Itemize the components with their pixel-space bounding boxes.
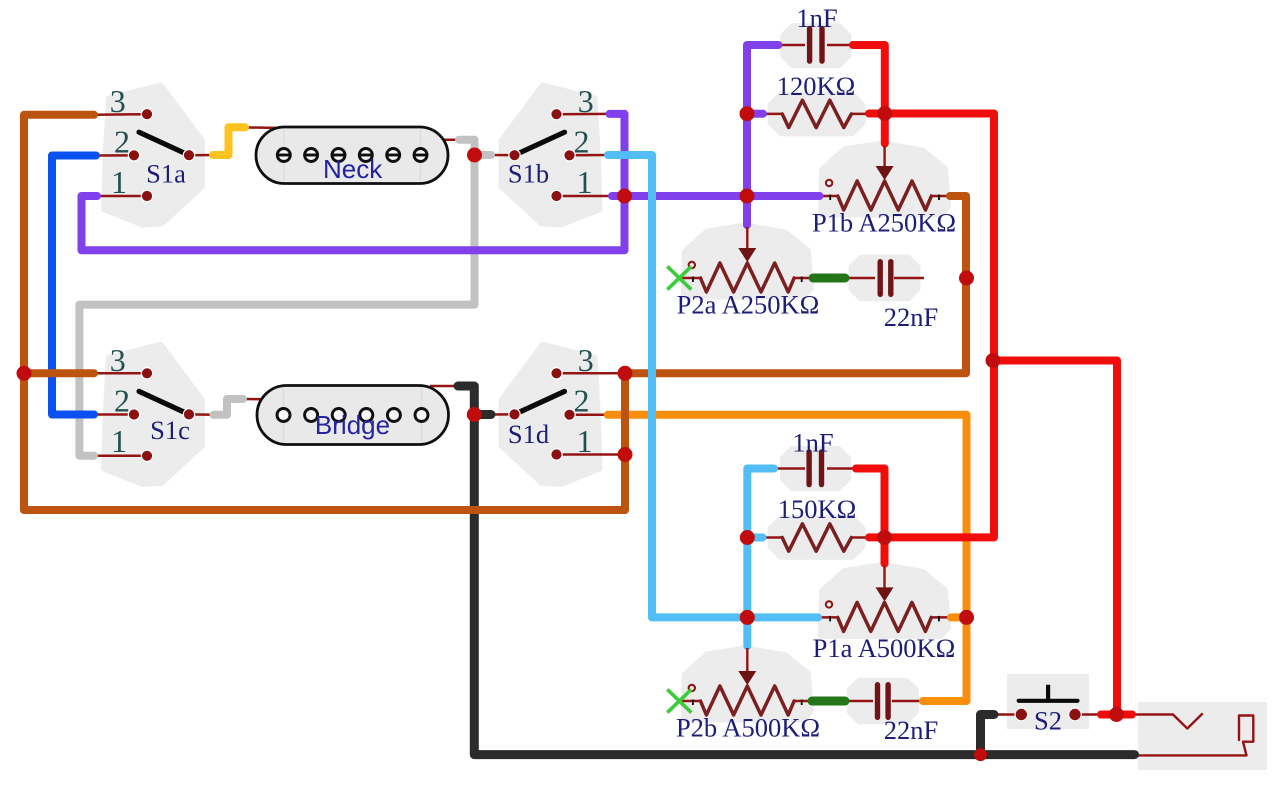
- gray wire stub to S1b common: [475, 151, 492, 159]
- capacitor 1nF bottom right lead: [827, 467, 857, 470]
- P2a right lead: [793, 277, 814, 280]
- svg-text:2: 2: [574, 382, 590, 418]
- P1a left lead: [817, 616, 839, 619]
- potentiometer P2b body: [684, 649, 810, 719]
- blue wire S1a.2 to S1c.2: [52, 156, 96, 415]
- resistor 150K zigzag: [782, 524, 851, 551]
- S1c terminal 2 lead: [94, 413, 134, 416]
- junction purple P1b left: [740, 189, 755, 204]
- black wire stub to S1d common: [474, 410, 491, 419]
- junction red output: [1109, 707, 1124, 722]
- green link P2a to 22nF: [813, 274, 845, 283]
- label S2: [1034, 706, 1062, 736]
- gray wire S1c common jog: [214, 399, 244, 415]
- neck pickup: [256, 127, 448, 184]
- label P2b: [676, 713, 820, 743]
- svg-text:P1a A500KΩ: P1a A500KΩ: [813, 633, 956, 663]
- potentiometer P1b body: [822, 144, 948, 214]
- svg-text:S1c: S1c: [150, 415, 190, 445]
- green link P2b to 22nF: [812, 697, 845, 706]
- purple wire S1a.1 to S1b: [82, 114, 625, 250]
- red stub at S2 junction: [1101, 711, 1132, 719]
- junction orange P1a: [959, 610, 974, 625]
- P2a wiper and pins: [689, 227, 802, 282]
- S1a terminal 3 lead: [94, 113, 147, 116]
- junction red 120K: [877, 106, 892, 121]
- label 1nF top: [796, 3, 837, 33]
- red stub at 150K: [869, 533, 885, 541]
- junction red 150K: [877, 530, 892, 545]
- label S1c: [150, 415, 190, 445]
- label P1a: [813, 633, 956, 663]
- svg-text:S1b: S1b: [508, 159, 549, 189]
- svg-text:2: 2: [574, 123, 590, 159]
- capacitor 22nF top plates: [880, 262, 891, 295]
- P2b left lead: [679, 700, 702, 703]
- svg-text:Bridge: Bridge: [315, 410, 390, 440]
- label P1b: [812, 208, 956, 238]
- junction red right: [986, 353, 1001, 368]
- svg-text:150KΩ: 150KΩ: [778, 494, 857, 524]
- S1a terminal dots: [128, 109, 194, 202]
- bridge pickup start lead: [243, 398, 282, 401]
- junction brown S1d.1: [618, 447, 633, 462]
- S1c terminal 3 lead: [94, 372, 147, 375]
- capacitor 1nF bottom plates: [809, 452, 821, 485]
- light blue stub to P2b wiper: [743, 617, 751, 646]
- black wire bridge finish to jack: [458, 386, 1135, 755]
- purple wire S1b.1 junction to P1b: [612, 192, 747, 200]
- svg-text:P1b A250KΩ: P1b A250KΩ: [812, 208, 956, 238]
- S1b terminal dots: [509, 109, 575, 202]
- capacitor 1nF bottom body: [784, 450, 848, 488]
- junction purple 120K: [740, 106, 755, 121]
- jack J1 body: [1138, 702, 1267, 770]
- capacitor 22nF top right lead: [894, 277, 924, 280]
- red wire to S2 junction: [993, 361, 1117, 715]
- P1b right lead: [930, 195, 951, 198]
- S1b common lead: [490, 154, 515, 157]
- capacitor 22nF bottom plates: [878, 685, 889, 718]
- P1a wiper and pins: [826, 566, 939, 621]
- switch S1b body: [502, 86, 599, 224]
- junction neck finish: [467, 148, 482, 163]
- junction S1b.1 purple: [617, 189, 632, 204]
- P2a left lead: [679, 277, 702, 280]
- junction light blue P1a: [740, 610, 755, 625]
- S1d common lead: [490, 413, 515, 416]
- svg-text:22nF: 22nF: [884, 715, 939, 745]
- red wire main loop: [885, 114, 995, 538]
- P2b right lead: [793, 700, 813, 703]
- label S1b: [508, 159, 549, 189]
- bridge pickup finish lead: [430, 385, 458, 388]
- label 120K: [777, 71, 856, 101]
- label 1nF bottom: [792, 428, 833, 458]
- S1d terminal 1 lead: [557, 453, 622, 456]
- junction black ground: [974, 748, 987, 761]
- purple stub to P1b left: [747, 192, 820, 200]
- brown wire net: [24, 115, 966, 510]
- svg-text:3: 3: [110, 83, 126, 119]
- red wire 1nF bottom to P1a wiper: [856, 469, 885, 564]
- S1b pin numbers: [574, 83, 594, 200]
- junction black S1d common: [467, 407, 482, 422]
- P1a right lead: [930, 616, 952, 619]
- capacitor 1nF top left lead: [777, 44, 805, 47]
- brown stub to S1c.3: [24, 369, 94, 377]
- svg-text:Neck: Neck: [323, 154, 383, 184]
- yellow wire S1a common jog: [213, 127, 245, 155]
- S1a lever: [139, 132, 189, 155]
- black wire riser to S2: [981, 715, 995, 755]
- S1b terminal 3 lead: [557, 113, 611, 116]
- S1a terminal 1 lead: [97, 195, 147, 198]
- svg-text:1: 1: [577, 164, 593, 200]
- light blue wire S1b.2 to P1a: [608, 155, 818, 617]
- junction brown S1d.3: [618, 366, 633, 381]
- svg-text:22nF: 22nF: [884, 302, 939, 332]
- svg-text:1: 1: [111, 423, 127, 459]
- label 22nF bottom: [884, 715, 939, 745]
- P2a unconnected mark: [667, 266, 691, 289]
- jack tip contact: [1132, 714, 1202, 729]
- capacitor 1nF top right lead: [827, 44, 854, 47]
- svg-text:3: 3: [578, 342, 594, 378]
- svg-text:S1d: S1d: [508, 419, 549, 449]
- S1b lever: [515, 132, 565, 155]
- capacitor 22nF top body: [852, 258, 917, 297]
- purple stub to 120K: [747, 110, 763, 118]
- P2b zigzag: [701, 686, 795, 715]
- S1b terminal 1 lead: [557, 195, 614, 198]
- svg-text:2: 2: [114, 382, 130, 418]
- switch S2 body: [1007, 674, 1089, 729]
- switch S1c body: [105, 345, 202, 483]
- svg-text:S2: S2: [1034, 706, 1062, 736]
- S1c terminal 1 lead: [94, 454, 147, 457]
- label S1a: [146, 159, 186, 189]
- svg-text:2: 2: [114, 123, 130, 159]
- capacitor 22nF bottom left lead: [844, 700, 873, 703]
- S1c lever: [139, 391, 189, 414]
- S1d terminal 3 lead: [557, 372, 622, 375]
- S1a pin numbers: [110, 83, 130, 200]
- svg-text:S1a: S1a: [146, 159, 186, 189]
- svg-text:120KΩ: 120KΩ: [777, 71, 856, 101]
- S1d lever: [515, 391, 565, 414]
- P1b wiper and pins: [826, 146, 939, 200]
- S2 right lead: [1075, 713, 1102, 716]
- svg-text:3: 3: [578, 83, 594, 119]
- potentiometer P1a body: [822, 565, 948, 635]
- S2 pushbutton symbol: [1019, 685, 1078, 701]
- P1b left lead: [818, 195, 839, 198]
- svg-text:1: 1: [111, 164, 127, 200]
- resistor 120K zigzag: [782, 100, 851, 127]
- label 150K: [778, 494, 857, 524]
- svg-text:1nF: 1nF: [792, 428, 833, 458]
- S1c terminal dots: [128, 368, 194, 462]
- P1b zigzag: [838, 181, 932, 210]
- svg-text:1: 1: [577, 423, 593, 459]
- S1a common lead: [189, 154, 214, 157]
- potentiometer P2a body: [684, 226, 810, 296]
- resistor 150K left lead: [762, 536, 783, 539]
- capacitor 1nF bottom left lead: [773, 467, 805, 470]
- svg-text:3: 3: [110, 342, 126, 378]
- resistor 150K right lead: [851, 536, 871, 539]
- P2a zigzag: [701, 263, 795, 292]
- capacitor 22nF top left lead: [844, 277, 875, 280]
- junction light blue 150K: [740, 530, 755, 545]
- svg-text:P2a A250KΩ: P2a A250KΩ: [677, 290, 820, 320]
- neck pickup finish lead: [430, 138, 459, 141]
- orange wire S1d.2 to 22nF: [608, 415, 967, 701]
- S1a terminal 2 lead: [96, 154, 134, 157]
- capacitor 1nF top body: [784, 27, 848, 65]
- neck pickup start lead: [245, 126, 281, 129]
- label Neck: [323, 154, 383, 184]
- resistor 150K body: [771, 519, 862, 556]
- orange stub to P1a right: [951, 613, 967, 621]
- capacitor 22nF bottom right lead: [892, 700, 924, 703]
- light blue wire to 1nF bottom: [747, 469, 774, 618]
- capacitor 22nF bottom body: [850, 681, 915, 720]
- light blue stub to 150K: [747, 534, 762, 542]
- label S1d: [508, 419, 549, 449]
- gray wire neck finish: [79, 140, 474, 456]
- bridge pickup: [257, 386, 449, 445]
- S2 terminal dots: [1015, 708, 1081, 721]
- capacitor 1nF top plates: [810, 29, 822, 62]
- svg-text:1nF: 1nF: [796, 3, 837, 33]
- svg-text:P2b A500KΩ: P2b A500KΩ: [676, 713, 820, 743]
- S1d terminal dots: [509, 368, 575, 461]
- red wire 1nF top to P1b wiper: [853, 45, 885, 144]
- S1b terminal 2 lead: [570, 154, 610, 157]
- S1c pin numbers: [110, 342, 130, 459]
- jack sleeve contact: [1135, 716, 1254, 756]
- switch S1a body: [105, 86, 202, 224]
- S1c common lead: [189, 413, 215, 416]
- label 22nF top: [884, 302, 939, 332]
- resistor 120K right lead: [850, 113, 871, 116]
- S1d terminal 2 lead: [570, 413, 610, 416]
- switch S1d body: [502, 345, 599, 483]
- red stub at 120K: [869, 110, 885, 118]
- resistor 120K body: [771, 95, 862, 132]
- junction brown 22nF: [959, 271, 974, 286]
- junction brown S1c.3: [17, 366, 32, 381]
- P2b wiper and pins: [689, 648, 802, 705]
- S2 left lead: [993, 713, 1021, 716]
- P2b unconnected mark: [667, 689, 691, 712]
- purple wire 1nF to P2a wiper: [747, 45, 778, 225]
- S1d pin numbers: [574, 342, 594, 459]
- P1a zigzag: [838, 602, 932, 631]
- label P2a: [677, 290, 820, 320]
- resistor 120K left lead: [763, 113, 783, 116]
- label Bridge: [315, 410, 390, 440]
